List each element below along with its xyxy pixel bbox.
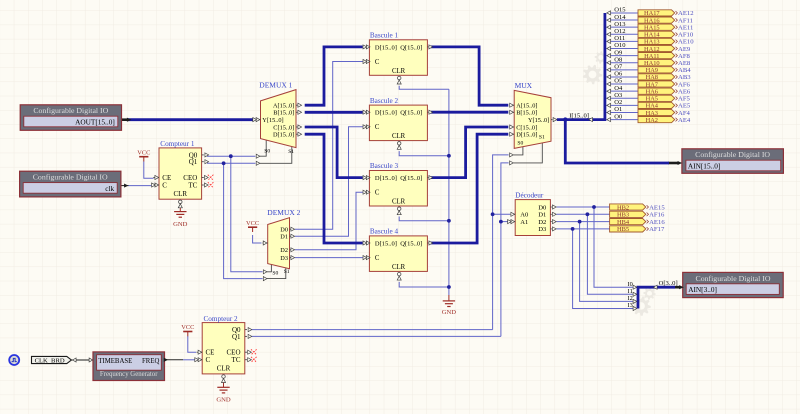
svg-text:D0: D0 (280, 226, 288, 233)
svg-text:I2: I2 (628, 295, 633, 302)
svg-text:Compteur 1: Compteur 1 (160, 140, 195, 148)
svg-text:D[15..0]: D[15..0] (375, 240, 397, 247)
svg-text:AB4: AB4 (678, 67, 691, 74)
svg-text:HB3: HB3 (617, 212, 629, 219)
svg-text:Q[15..0]: Q[15..0] (400, 44, 422, 51)
svg-text:C: C (375, 124, 380, 131)
svg-text:HA17: HA17 (644, 10, 660, 17)
svg-text:AIN[15..0]: AIN[15..0] (688, 161, 720, 170)
svg-text:TIMEBASE: TIMEBASE (98, 358, 132, 365)
svg-text:AE11: AE11 (678, 25, 693, 32)
svg-text:CLR: CLR (173, 190, 187, 198)
svg-text:AE9: AE9 (678, 46, 691, 53)
svg-text:Décodeur: Décodeur (515, 191, 544, 199)
svg-text:C: C (206, 356, 211, 364)
svg-text:I[15..0]: I[15..0] (569, 113, 589, 120)
svg-text:O2: O2 (614, 99, 622, 106)
svg-text:C: C (375, 255, 380, 262)
svg-text:VCC: VCC (246, 220, 259, 227)
svg-text:O8: O8 (614, 56, 622, 63)
svg-text:AE4: AE4 (678, 117, 691, 124)
svg-text:HA12: HA12 (644, 46, 660, 53)
svg-text:Y[15..0]: Y[15..0] (528, 117, 549, 124)
svg-text:O6: O6 (614, 71, 623, 78)
svg-text:AF4: AF4 (678, 110, 691, 117)
svg-text:AE8: AE8 (678, 60, 691, 67)
svg-text:HB4: HB4 (617, 219, 630, 226)
svg-text:D0: D0 (538, 204, 547, 211)
svg-text:AF8: AF8 (678, 53, 691, 60)
svg-text:GND: GND (442, 309, 457, 316)
svg-text:O3: O3 (614, 92, 622, 99)
svg-text:Configurable Digital IO: Configurable Digital IO (695, 150, 770, 159)
svg-text:AF11: AF11 (678, 17, 693, 24)
svg-text:B[15..0]: B[15..0] (516, 110, 537, 117)
svg-text:HA6: HA6 (646, 89, 658, 96)
svg-text:D[15..0]: D[15..0] (375, 44, 397, 51)
svg-text:DEMUX 1: DEMUX 1 (259, 80, 292, 89)
svg-text:TC: TC (232, 356, 241, 364)
svg-text:Frequency Generator: Frequency Generator (100, 371, 158, 378)
svg-text:D1: D1 (538, 212, 546, 219)
svg-text:AF5: AF5 (678, 96, 691, 103)
svg-text:A0: A0 (520, 212, 529, 219)
svg-text:D[15..0]: D[15..0] (273, 132, 294, 139)
svg-text:Q1: Q1 (232, 333, 241, 341)
svg-text:CLR: CLR (392, 133, 406, 140)
svg-text:Q[15..0]: Q[15..0] (400, 110, 422, 117)
svg-text:Bascule 3: Bascule 3 (370, 162, 399, 170)
svg-text:D3: D3 (538, 226, 547, 233)
svg-text:HA7: HA7 (646, 81, 659, 88)
svg-text:CLR: CLR (392, 264, 406, 271)
svg-text:Y[15..0]: Y[15..0] (262, 117, 283, 124)
svg-text:O13: O13 (614, 21, 625, 28)
svg-text:Configurable Digital IO: Configurable Digital IO (33, 173, 108, 182)
svg-text:clk: clk (105, 184, 114, 193)
svg-text:DEMUX 2: DEMUX 2 (267, 208, 300, 217)
svg-text:HB2: HB2 (617, 204, 629, 211)
svg-text:CLR: CLR (392, 199, 406, 206)
svg-text:CLR: CLR (217, 365, 231, 373)
svg-text:O15: O15 (614, 7, 625, 14)
svg-text:GND: GND (173, 221, 188, 228)
svg-text:D3: D3 (280, 255, 288, 262)
svg-text:S1: S1 (284, 269, 290, 275)
svg-text:O11: O11 (614, 35, 625, 42)
svg-text:I1: I1 (628, 288, 633, 295)
svg-text:S1: S1 (288, 149, 294, 155)
svg-text:AB3: AB3 (678, 74, 691, 81)
svg-text:AF17: AF17 (649, 226, 665, 233)
svg-text:AE6: AE6 (678, 89, 691, 96)
svg-text:AE16: AE16 (649, 219, 665, 226)
svg-text:AE10: AE10 (678, 39, 694, 46)
svg-text:AE5: AE5 (678, 103, 691, 110)
svg-text:VCC: VCC (137, 149, 150, 156)
svg-text:C: C (375, 59, 380, 66)
svg-text:HA3: HA3 (646, 110, 658, 117)
svg-text:Bascule 2: Bascule 2 (370, 97, 399, 105)
svg-text:B[15..0]: B[15..0] (273, 110, 294, 117)
svg-text:S1: S1 (539, 135, 545, 141)
svg-text:D[15..0]: D[15..0] (375, 110, 397, 117)
svg-text:O0: O0 (614, 113, 622, 120)
svg-text:GND: GND (216, 397, 231, 404)
svg-text:D2: D2 (280, 247, 288, 254)
svg-text:AF16: AF16 (649, 212, 665, 219)
svg-text:Bascule 4: Bascule 4 (370, 228, 399, 236)
svg-text:O10: O10 (614, 42, 625, 49)
svg-text:O9: O9 (614, 49, 622, 56)
svg-text:C: C (375, 190, 380, 197)
svg-text:O5: O5 (614, 78, 622, 85)
svg-text:A1: A1 (520, 219, 528, 226)
svg-text:HB5: HB5 (617, 226, 629, 233)
svg-text:S0: S0 (272, 271, 278, 277)
svg-text:Q1: Q1 (189, 158, 198, 166)
svg-text:O[3..0]: O[3..0] (659, 280, 678, 287)
svg-text:A[15..0]: A[15..0] (516, 103, 537, 110)
svg-text:CLR: CLR (392, 68, 406, 75)
svg-text:Configurable Digital IO: Configurable Digital IO (33, 106, 108, 115)
svg-text:Configurable Digital IO: Configurable Digital IO (696, 274, 771, 283)
svg-text:O14: O14 (614, 14, 626, 21)
svg-text:A[15..0]: A[15..0] (273, 103, 294, 110)
svg-text:C: C (162, 181, 167, 189)
svg-text:AE15: AE15 (649, 204, 665, 211)
svg-text:VCC: VCC (181, 324, 194, 331)
svg-text:Q[15..0]: Q[15..0] (400, 240, 422, 247)
svg-text:Q[15..0]: Q[15..0] (400, 175, 422, 182)
svg-text:O7: O7 (614, 64, 623, 71)
svg-text:I0: I0 (628, 281, 633, 288)
svg-text:D[15..0]: D[15..0] (516, 132, 537, 139)
svg-text:S0: S0 (264, 149, 270, 155)
svg-text:HA10: HA10 (644, 60, 660, 67)
svg-text:AE12: AE12 (678, 10, 694, 17)
svg-text:HA15: HA15 (644, 25, 660, 32)
svg-text:HA13: HA13 (644, 39, 660, 46)
svg-text:C[15..0]: C[15..0] (516, 124, 537, 131)
svg-text:HA4: HA4 (646, 103, 659, 110)
svg-text:Compteur 2: Compteur 2 (204, 315, 239, 323)
svg-text:D[15..0]: D[15..0] (375, 175, 397, 182)
svg-text:FREQ: FREQ (142, 358, 159, 365)
svg-text:MUX: MUX (515, 81, 533, 90)
svg-text:Bascule 1: Bascule 1 (370, 32, 399, 40)
svg-text:D2: D2 (538, 219, 546, 226)
svg-text:HA8: HA8 (646, 74, 658, 81)
svg-text:AOUT[15..0]: AOUT[15..0] (75, 117, 115, 126)
svg-text:O1: O1 (614, 106, 622, 113)
svg-text:O12: O12 (614, 28, 625, 35)
svg-text:AIN[3..0]: AIN[3..0] (688, 285, 717, 294)
svg-text:O4: O4 (614, 85, 623, 92)
svg-text:D1: D1 (280, 233, 288, 240)
svg-text:I3: I3 (628, 302, 633, 309)
svg-text:AF10: AF10 (678, 32, 694, 39)
svg-text:HA14: HA14 (644, 32, 660, 39)
svg-text:HA5: HA5 (646, 96, 658, 103)
svg-text:TC: TC (188, 181, 197, 189)
svg-text:AF6: AF6 (678, 81, 691, 88)
svg-text:S0: S0 (517, 140, 523, 146)
svg-text:CLK_BRD: CLK_BRD (35, 357, 65, 364)
svg-text:HA9: HA9 (646, 67, 658, 74)
svg-text:C[15..0]: C[15..0] (273, 124, 294, 131)
svg-text:HA16: HA16 (644, 17, 660, 24)
svg-text:HA2: HA2 (646, 117, 658, 124)
svg-text:HA11: HA11 (644, 53, 659, 60)
